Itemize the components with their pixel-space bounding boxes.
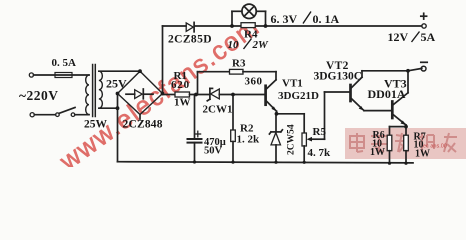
svg-text:0. 1A: 0. 1A (313, 12, 340, 26)
svg-text:1W: 1W (415, 149, 430, 160)
svg-text:VT1: VT1 (282, 78, 303, 90)
svg-text:~220V: ~220V (19, 88, 59, 103)
svg-text:25W: 25W (84, 119, 108, 131)
svg-text:1W: 1W (370, 147, 385, 158)
svg-text:5A: 5A (421, 30, 436, 44)
svg-text:1. 2k: 1. 2k (237, 134, 261, 146)
svg-text:3DG130C: 3DG130C (314, 71, 363, 83)
svg-text:25V: 25V (106, 77, 127, 91)
svg-text:DD01A: DD01A (368, 87, 406, 101)
svg-text:360: 360 (245, 76, 263, 88)
svg-text:0. 5A: 0. 5A (52, 57, 77, 69)
svg-text:50V: 50V (204, 146, 223, 157)
svg-text:4. 7k: 4. 7k (308, 147, 332, 159)
svg-text:2CZ848: 2CZ848 (123, 119, 163, 131)
svg-text:2CZ85D: 2CZ85D (168, 34, 212, 46)
svg-text:2W: 2W (252, 39, 270, 51)
svg-text:R3: R3 (232, 58, 246, 70)
svg-text:2CW1: 2CW1 (203, 104, 233, 116)
svg-text:620: 620 (171, 79, 190, 91)
svg-text:6. 3V: 6. 3V (271, 12, 298, 26)
svg-text:10: 10 (228, 39, 240, 51)
svg-text:2CW54: 2CW54 (287, 124, 297, 155)
svg-text:1W: 1W (174, 97, 191, 109)
svg-text:3DG21D: 3DG21D (278, 90, 319, 102)
svg-text:R5: R5 (313, 126, 327, 138)
svg-text:12V: 12V (388, 30, 409, 44)
